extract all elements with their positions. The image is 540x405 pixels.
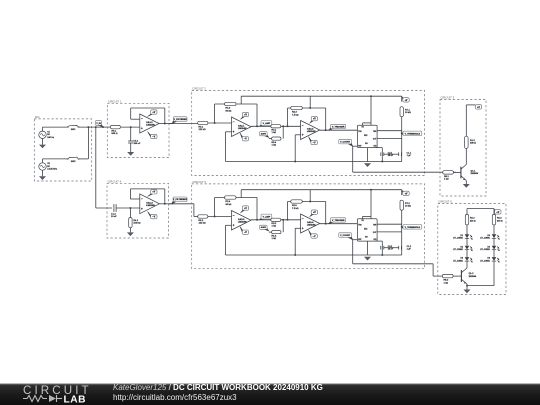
svg-text:V_TRIGGER: V_TRIGGER [332, 220, 345, 222]
svg-text:SW2: SW2 [71, 161, 77, 163]
svg-text:7.5 kΩ: 7.5 kΩ [292, 208, 299, 210]
svg-text:OA2-3: OA2-3 [238, 218, 245, 221]
svg-text:90 kΩ: 90 kΩ [226, 204, 232, 206]
svg-text:330 Ω: 330 Ω [497, 220, 503, 222]
svg-text:http://circuitlab.com/cfr563e6: http://circuitlab.com/cfr563e67zux3 [113, 393, 237, 402]
svg-text:R1-2: R1-2 [470, 140, 476, 142]
svg-text:1 kΩ: 1 kΩ [272, 238, 277, 240]
svg-text:330 Ω: 330 Ω [470, 143, 476, 145]
svg-text:R5-5: R5-5 [272, 235, 278, 237]
svg-text:OUT: OUT [373, 232, 376, 234]
svg-text:LTL-30EBJ: LTL-30EBJ [453, 249, 463, 251]
svg-text:−V: −V [152, 136, 155, 138]
svg-text:−V: −V [313, 236, 316, 238]
svg-text:R5-4: R5-4 [272, 142, 278, 144]
svg-text:V_COUNT: V_COUNT [340, 235, 351, 237]
svg-text:LM324N: LM324N [238, 220, 247, 223]
svg-text:4.00V: 4.00V [261, 133, 267, 136]
svg-text:V_AMP: V_AMP [263, 215, 271, 218]
svg-text:OUT: OUT [373, 139, 376, 141]
svg-text:CIRCUIT 6: CIRCUIT 6 [438, 200, 452, 204]
svg-text:OA1-2: OA1-2 [146, 201, 153, 204]
svg-text:1 kΩ: 1 kΩ [272, 226, 277, 228]
svg-text:121 kΩ: 121 kΩ [199, 223, 206, 225]
svg-text:R8-1: R8-1 [444, 176, 450, 178]
svg-text:SIG: SIG [35, 115, 40, 119]
svg-text:4.00V: 4.00V [261, 226, 267, 229]
svg-text:500 Ω: 500 Ω [112, 133, 118, 135]
svg-text:V_IN: V_IN [96, 123, 101, 125]
svg-text:CIRCUIT 1: CIRCUIT 1 [108, 99, 122, 103]
svg-text:Q1-1: Q1-1 [471, 171, 477, 173]
svg-text:+V: +V [477, 107, 480, 109]
svg-text:R7-1: R7-1 [405, 109, 411, 111]
svg-text:1 kΩ: 1 kΩ [272, 132, 277, 134]
svg-text:2N3904: 2N3904 [471, 173, 479, 175]
svg-text:10 nF: 10 nF [111, 216, 117, 218]
svg-text:V_THRESHOLD: V_THRESHOLD [405, 227, 421, 229]
svg-text:+V: +V [152, 112, 155, 114]
svg-text:V_FILTERED2: V_FILTERED2 [173, 199, 188, 201]
svg-text:CIRCUIT 2: CIRCUIT 2 [192, 86, 206, 90]
svg-text:−V: −V [244, 232, 247, 234]
svg-text:1 μF: 1 μF [407, 249, 412, 251]
svg-text:1 kΩ: 1 kΩ [272, 145, 277, 147]
svg-text:100 nF: 100 nF [134, 143, 141, 145]
svg-text:+V: +V [313, 119, 316, 121]
svg-text:10 kΩ: 10 kΩ [405, 112, 411, 114]
svg-text:LTL-30EBJ: LTL-30EBJ [480, 238, 490, 240]
svg-text:VS: VS [362, 220, 364, 222]
svg-text:R4-1: R4-1 [133, 220, 139, 222]
svg-text:RST: RST [358, 146, 361, 148]
svg-text:2N3904: 2N3904 [469, 276, 477, 278]
svg-text:10 nF: 10 nF [388, 155, 394, 157]
svg-text:CIRCUIT 3: CIRCUIT 3 [441, 96, 455, 100]
svg-text:+V: +V [152, 192, 155, 194]
svg-text:LM324N: LM324N [307, 130, 316, 133]
svg-text:C1-2: C1-2 [111, 214, 117, 216]
svg-text:−V: −V [313, 142, 316, 144]
svg-text:7.5 kΩ: 7.5 kΩ [292, 114, 299, 116]
svg-text:V_FILTERED: V_FILTERED [174, 119, 188, 121]
svg-text:SW1: SW1 [71, 129, 77, 131]
svg-text:LTL-30EBJ: LTL-30EBJ [480, 249, 490, 251]
svg-text:R5-1: R5-1 [199, 127, 205, 129]
svg-text:R2-4: R2-4 [226, 201, 232, 203]
svg-text:VS: VS [362, 127, 364, 129]
svg-text:OA2-2: OA2-2 [307, 128, 314, 131]
svg-text:LTL-30EBJ: LTL-30EBJ [453, 260, 463, 262]
svg-text:LAB: LAB [64, 395, 86, 405]
svg-text:1 kΩ: 1 kΩ [444, 179, 449, 181]
svg-text:+V: +V [405, 100, 408, 102]
svg-text:LM324N: LM324N [146, 204, 155, 207]
svg-text:+V: +V [244, 114, 247, 116]
svg-text:330 Ω: 330 Ω [470, 220, 476, 222]
svg-text:V_TRIGGER: V_TRIGGER [332, 126, 345, 128]
svg-text:LTL-30EBJ: LTL-30EBJ [480, 260, 490, 262]
svg-text:121 kΩ: 121 kΩ [199, 129, 206, 131]
svg-text:V_COUNT: V_COUNT [340, 142, 351, 144]
svg-text:−V: −V [244, 139, 247, 141]
svg-text:V_AMP: V_AMP [263, 122, 271, 125]
svg-text:+V: +V [405, 193, 408, 195]
svg-text:2.125 kHz: 2.125 kHz [47, 169, 57, 171]
svg-text:R2-2: R2-2 [226, 108, 232, 110]
svg-text:−V: −V [152, 217, 155, 219]
svg-text:Q1-2: Q1-2 [469, 273, 475, 275]
svg-text:CIRCUIT 5: CIRCUIT 5 [192, 180, 206, 184]
svg-text:90 kΩ: 90 kΩ [226, 110, 232, 112]
svg-text:+V: +V [244, 208, 247, 210]
svg-text:RST: RST [358, 239, 361, 241]
svg-text:R3-2: R3-2 [272, 223, 278, 225]
svg-text:V_THRESHOLD: V_THRESHOLD [405, 133, 421, 135]
svg-text:LM324N: LM324N [146, 124, 155, 127]
svg-text:R2-5: R2-5 [292, 205, 298, 207]
svg-text:C5-1: C5-1 [134, 140, 140, 142]
svg-text:10 kΩ: 10 kΩ [405, 206, 411, 208]
svg-text:100 kΩ: 100 kΩ [133, 223, 140, 225]
svg-text:R2-3: R2-3 [292, 112, 298, 114]
svg-text:+V: +V [313, 212, 316, 214]
svg-text:R6-1: R6-1 [112, 131, 118, 133]
svg-text:KateGlover125 / DC CIRCUIT WOR: KateGlover125 / DC CIRCUIT WORKBOOK 2024… [113, 383, 323, 392]
svg-text:CIRCUIT 4: CIRCUIT 4 [108, 179, 122, 183]
svg-text:R8-2: R8-2 [444, 280, 450, 282]
svg-text:R7-2: R7-2 [405, 203, 411, 205]
svg-text:OA2-4: OA2-4 [307, 221, 314, 224]
svg-text:1 kΩ: 1 kΩ [444, 282, 449, 284]
svg-text:100 Hz: 100 Hz [47, 137, 54, 139]
svg-text:LTL-30EBJ: LTL-30EBJ [453, 238, 463, 240]
svg-text:R5-2: R5-2 [199, 220, 205, 222]
svg-text:OA1-1: OA1-1 [146, 121, 153, 124]
svg-text:10 nF: 10 nF [388, 249, 394, 251]
svg-text:1 μF: 1 μF [407, 155, 412, 157]
svg-text:LM324N: LM324N [307, 224, 316, 227]
svg-text:OA2-1: OA2-1 [238, 124, 245, 127]
svg-text:R3-1: R3-1 [272, 129, 278, 131]
svg-text:LM324N: LM324N [238, 127, 247, 130]
svg-text:+V: +V [496, 212, 499, 214]
